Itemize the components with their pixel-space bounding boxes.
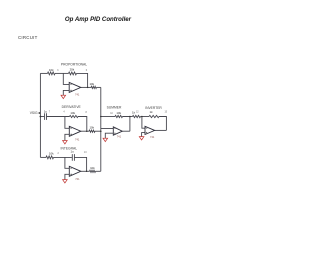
wire integral mid segment [54,156,72,158]
op-amp U2 input polarity marks [70,128,72,135]
svg-text:DERIVATIVE: DERIVATIVE [62,105,82,109]
svg-text:Op Amp PID Controller: Op Amp PID Controller [65,16,132,23]
op-amp U4 summer 741 [113,127,122,135]
resistor R2 proportional feedback [69,72,77,75]
wire inverter inverting input stub [142,117,145,129]
svg-text:10k: 10k [89,126,94,130]
svg-text:741: 741 [75,177,80,181]
junction node summer output [129,116,131,118]
svg-text:10k: 10k [49,68,54,72]
ground summer [103,138,108,141]
op-amp U1 proportional 741 [69,82,81,92]
svg-text:INVERTER: INVERTER [145,106,162,110]
svg-text:PROPORTIONAL: PROPORTIONAL [61,62,87,66]
junction node inverter input [141,116,143,118]
wire derivative output [81,130,89,132]
wire summer feedback left segment [101,116,115,118]
wire summer to inverter segment [130,116,133,118]
junction node D feedback [86,130,88,132]
wire integral output to bus [96,170,101,172]
wire inverter output [155,129,167,131]
op-amp U4 input polarity marks [114,129,115,134]
svg-text:20k: 20k [70,67,75,71]
wire summer output [122,130,130,132]
op-amp U5 inverter 741 [145,126,155,134]
wire proportional top left segment [40,72,47,74]
resistor R1 10k proportional input [48,72,56,75]
ground derivative [63,141,68,144]
wire integral top right segment and feedback drop [74,157,86,171]
wire inverter noninverting input to ground [142,133,145,137]
wire proportional inverting input stub [63,73,69,84]
svg-text:10k: 10k [116,111,121,115]
wire left input bus [39,73,41,157]
wire integral output [81,170,90,172]
ground proportional [61,95,66,98]
op-amp U3 input polarity marks [70,168,72,175]
wire proportional top right segment and feedback drop [77,73,88,87]
wire derivative mid segment [47,116,70,118]
wire derivative output to bus [95,130,101,132]
svg-text:10k: 10k [89,82,94,86]
svg-text:VSIG: VSIG [30,111,38,115]
svg-text:741: 741 [75,138,80,142]
resistor R5 10k derivative to summing bus [89,130,95,132]
wire summer noninverting input to ground [105,133,113,138]
wire proportional noninverting input to ground [63,90,69,95]
wire summer inverting input [101,128,114,130]
wire inverter input node segment [141,116,150,118]
svg-text:CIRCUIT: CIRCUIT [18,35,38,40]
wire derivative input left segment [40,116,44,118]
wire integral input left segment [40,156,46,158]
ground inverter [139,137,144,140]
junction node summer feedback at bus [100,116,102,118]
op-amp U3 integral 741 [69,166,81,176]
svg-text:741: 741 [75,92,80,96]
junction node VSIG input [40,116,42,118]
wire derivative top right segment and feedback drop [78,117,87,132]
wire proportional top mid segment [55,72,69,74]
resistor R10 1k inverter feedback [149,115,159,117]
capacitor C2 1u integral feedback plates [72,154,74,161]
svg-text:1u: 1u [70,150,74,154]
wire derivative noninverting input to ground [65,134,69,140]
svg-text:10k: 10k [70,111,75,115]
capacitor C1 1u derivative input plates [45,113,47,120]
wire integral noninverting input to ground [65,174,69,179]
wire summing bus [100,87,102,171]
resistor R6 10k integral input [46,156,54,159]
wire integral inverting input stub [65,157,69,168]
port VSIG input [30,111,41,115]
resistor R9 1k series summer to inverter [133,115,141,117]
wire inverter feedback right segment and drop to output [159,117,166,131]
resistor R3 10k proportional to summing bus [91,86,97,88]
resistor R8 10k summer feedback [115,115,123,117]
svg-text:SUMMER: SUMMER [107,105,122,109]
resistor R4 10k derivative feedback [70,115,79,117]
junction node D output at bus [100,130,102,132]
junction node I feedback [86,171,88,173]
wire proportional output to bus [97,86,101,88]
wire derivative inverting input stub [65,117,69,129]
svg-text:741: 741 [150,135,155,139]
svg-text:741: 741 [117,134,122,138]
svg-text:10k: 10k [49,152,54,156]
op-amp U5 input polarity marks [146,128,147,133]
svg-text:INTEGRAL: INTEGRAL [61,146,78,150]
op-amp U1 input polarity marks [70,84,72,91]
op-amp U2 derivative 741 [69,126,81,136]
ground integral [63,180,68,183]
svg-text:1u: 1u [44,109,48,113]
resistor R7 10k integral to summing bus [90,170,96,172]
wire proportional output [81,86,91,88]
junction node P feedback [87,87,89,89]
svg-text:10k: 10k [90,166,95,170]
wire summer feedback right segment and drop to output [123,117,130,132]
